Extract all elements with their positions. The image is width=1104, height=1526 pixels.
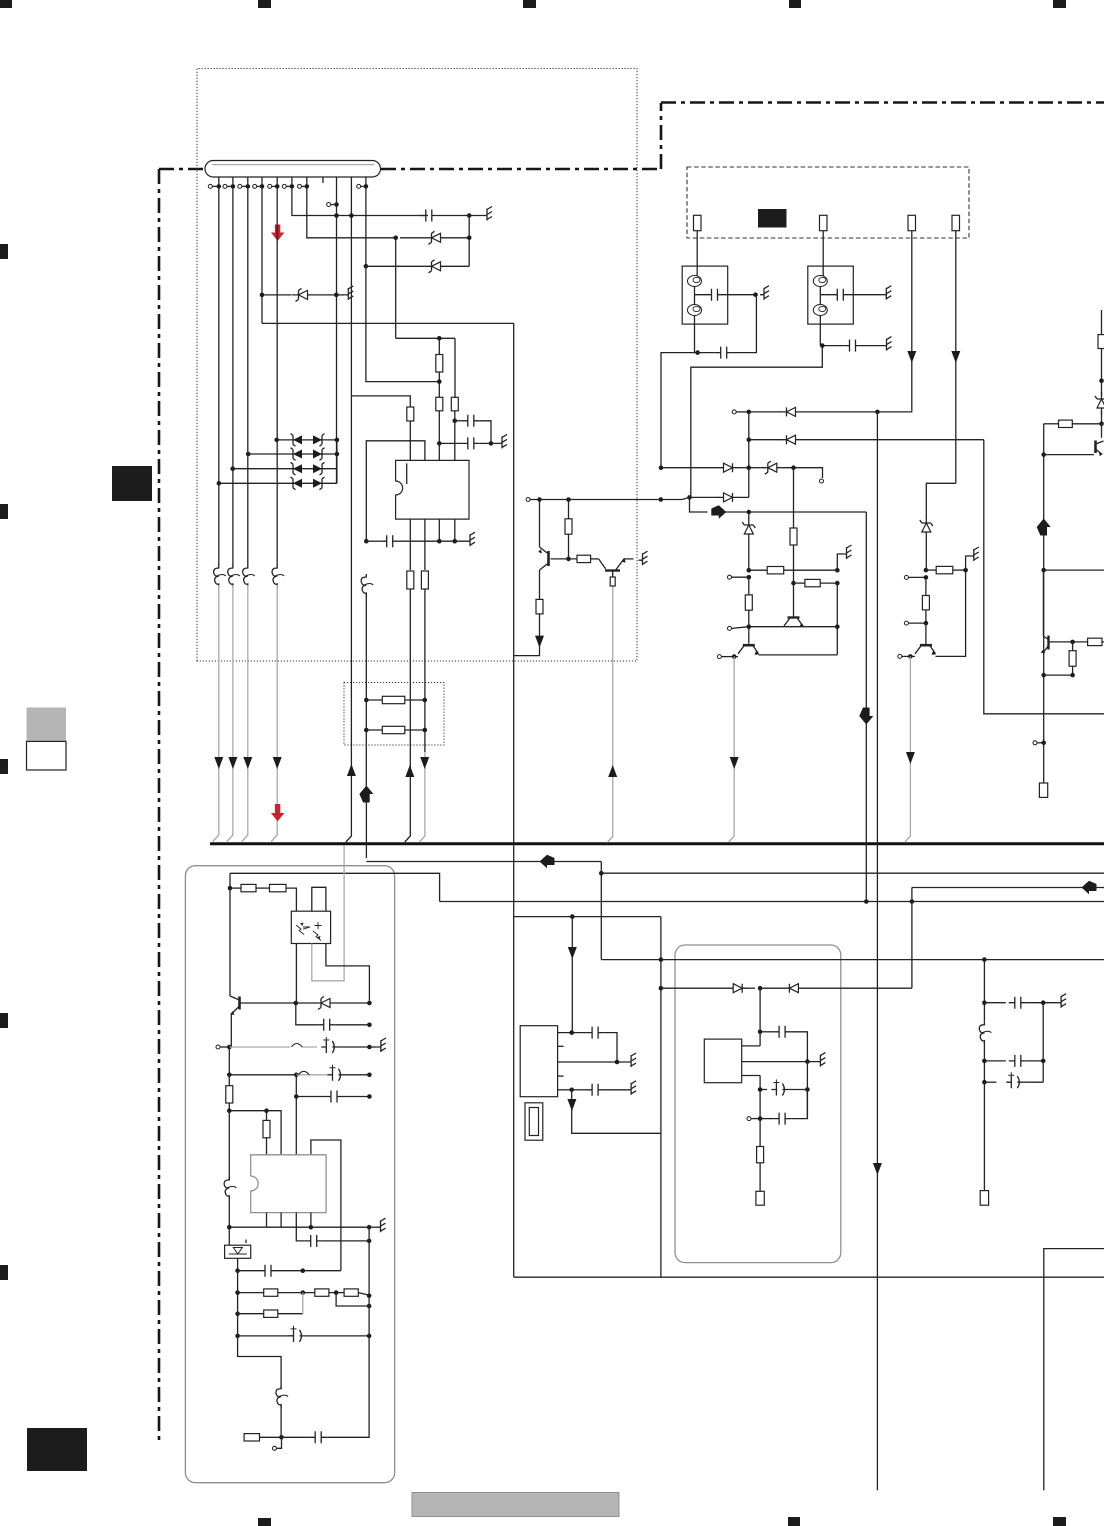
coil bead L4 [243, 186, 255, 587]
IC2 bottom pins [267, 1213, 311, 1228]
PSU gnd rail y1227 [227, 1218, 386, 1232]
capacitor C1 [420, 210, 438, 222]
gray down arrow wire R5 to bus [419, 752, 429, 842]
registration mark top 4 [1053, 0, 1066, 8]
transistor Q2 [599, 558, 634, 586]
pin pair 4 [253, 184, 257, 188]
wire rail y570 right [1044, 569, 1104, 571]
IC2 cap row y1240 [296, 1213, 371, 1247]
resistor R4 (vert) [407, 571, 414, 589]
node x984 y959 [982, 957, 987, 962]
diode row1 y412 [732, 407, 912, 416]
dotted block boundary (tuner unit) [197, 69, 637, 662]
wire SP2 route to diode row4 [691, 346, 823, 498]
wire x1043 from R13 [1043, 424, 1045, 675]
wire jog to coil L8 [238, 1336, 282, 1389]
zener DZ4 (page edge) [1095, 392, 1104, 415]
right sensor cap row y1002 [982, 994, 1066, 1009]
coil bead L2 [214, 186, 226, 587]
registration mark bottom 2 [788, 1517, 800, 1526]
dash-dot boundary left vertical [158, 169, 161, 1445]
ground G1 [483, 207, 492, 221]
cell A rail y627 [728, 624, 840, 630]
pin pair 7 [298, 184, 302, 188]
resistor R18 (vert) [263, 1111, 270, 1155]
node zener rail left [393, 236, 398, 241]
gray wire cell A to bus [729, 657, 739, 842]
coil L7 [224, 1111, 236, 1228]
rounded block middle (remote unit) [675, 945, 841, 1263]
wire pin3 down with arrow [907, 231, 916, 411]
PSU rail y1003 [242, 997, 372, 1010]
wire x760 drop [759, 988, 761, 1032]
block arrow down x866 [859, 708, 873, 725]
resistor R16 (vert) [757, 1119, 764, 1192]
gray wire emitter x612 to bus [607, 586, 617, 843]
up arrow wire x351 to bus [346, 396, 356, 842]
wire x1043 to pin [1043, 675, 1045, 783]
cell B emitter rail y656 [898, 572, 966, 659]
node x572 y916 [570, 914, 575, 919]
wire pin2 to SP2 [822, 231, 824, 276]
node x1101 y423 [1099, 422, 1104, 427]
wire y395 rail [351, 396, 410, 407]
connector CN1 pin ticks [219, 177, 366, 214]
terminal pin rect right sensor [980, 1191, 988, 1206]
wire pill stub x336 down matrix rail [336, 205, 338, 484]
speaker SP2 box [808, 266, 883, 324]
wire x983 row2 drop [984, 440, 1104, 714]
capacitor C4 [698, 297, 757, 359]
wire SP1 out [694, 316, 696, 353]
resistor R6 (vert) [790, 468, 797, 583]
registration mark left 3 [0, 759, 8, 774]
PSU rail y1074 [227, 1065, 372, 1081]
pin pair 3 [238, 184, 242, 188]
wire L1 down to dotted box [365, 594, 367, 730]
transistor Q4 [738, 627, 759, 655]
PSU emitter wire [230, 1014, 232, 1047]
PSU cap row y1096 [294, 1091, 372, 1103]
node y381/x439 [437, 379, 442, 384]
wire pin8 jog to x439 [366, 266, 439, 381]
pin pair 2 [223, 184, 227, 188]
cell A mid rail y570 [747, 567, 840, 574]
resistor R13 (horiz) [1044, 420, 1102, 427]
IC1 bottom pins [410, 519, 455, 570]
wire y861 rail [366, 861, 601, 863]
transistor Q7 [1041, 570, 1053, 653]
dashed block boundary (speaker connector) [687, 167, 969, 238]
cell A emitter rail y656 [717, 627, 837, 659]
zener DZ3 vertical [920, 516, 933, 570]
audio IC box [520, 1026, 557, 1097]
cell B input circle y623 [904, 621, 928, 626]
resistor R10 (vert) [536, 599, 543, 636]
cell B rail y570 [924, 566, 968, 573]
right sensor ecap row y1082 [982, 1072, 1043, 1088]
matrix zener left row3 [291, 462, 303, 475]
wire cap-row inverted U to IC1 [366, 441, 425, 541]
remote cap row y1031 [758, 1026, 808, 1062]
wire R4/R5 down [410, 589, 425, 758]
coil bead L3 [228, 186, 240, 587]
wire x601 drop [600, 862, 602, 960]
rail y675 [1041, 673, 1075, 678]
optocoupler box [291, 911, 330, 943]
matrix diode right row4 [313, 477, 325, 490]
registration mark bottom 1 [258, 1518, 271, 1526]
speaker connector pin 1 [694, 215, 702, 230]
node matrix r1 [335, 438, 340, 443]
wire x748 vert rows [748, 412, 750, 498]
matrix right rail [336, 440, 338, 483]
ground cell A [837, 545, 851, 570]
resistor R3 (vert) [451, 397, 458, 411]
wire x229 y1047-1074 [228, 1047, 230, 1075]
matrix diode right row3 [313, 462, 325, 475]
node R3 y420 [453, 419, 458, 424]
node x1043 y570 [1041, 568, 1046, 573]
wire zener D1 rail [400, 237, 469, 239]
wire x296 vertical [295, 1075, 297, 1155]
stub open circle [273, 1437, 282, 1450]
node SP1 cap [753, 292, 758, 297]
pin pair 1 [208, 184, 212, 188]
audio IC pin stub 4 [558, 1075, 564, 1077]
wire cap to ground [438, 215, 483, 217]
node SP2 out [820, 343, 825, 348]
PSU input rail y1047 [216, 1037, 386, 1053]
wire SP1 line to x661 [661, 353, 698, 468]
PSU ecap row y1335 [235, 1326, 371, 1342]
wire audio out with arrow [567, 1090, 661, 1134]
wire y887 rail with arrow [912, 881, 1104, 895]
zener DZ2 vertical [742, 512, 755, 570]
black label block upper left [112, 466, 152, 501]
arrow down x877 [873, 1163, 882, 1175]
resistor R8 (vert) [565, 500, 572, 559]
terminal pin rect remote [756, 1191, 764, 1205]
direction arrow left y861 [540, 855, 555, 869]
audio IC pin row 3 [558, 1053, 637, 1067]
node zener rail right [467, 236, 472, 241]
resistor R12 (vert, page edge) [1098, 335, 1104, 349]
black label block in speaker connector [758, 209, 787, 228]
right column vertical x1101 [1101, 310, 1103, 424]
zener diode D1 [425, 231, 447, 244]
wire x837 down [836, 583, 838, 627]
resistor R2a (vert) [436, 338, 443, 397]
diode matrix row 4 [217, 481, 337, 486]
matrix diode right row1 [313, 434, 325, 447]
registration mark top 1 [258, 0, 271, 8]
IC2 body [251, 1155, 326, 1213]
capacitor C2 [455, 415, 491, 444]
bottom-right unit box [1044, 1249, 1104, 1491]
wire IC2 pin4 top loop [311, 1140, 341, 1271]
rounded block left (power supply unit) [185, 866, 394, 1483]
transistor Q3 [784, 583, 804, 627]
transistor Q6 (page edge) [1096, 424, 1104, 456]
diode matrix row 1 [274, 438, 336, 443]
registration mark top 3 [789, 0, 801, 8]
registration mark top 2 [523, 0, 536, 8]
wire pin6 to cap rail [292, 186, 428, 215]
black label block lower left [27, 1428, 87, 1471]
block arrow up x1043 [1037, 519, 1051, 536]
zener cell B feed [926, 483, 956, 517]
node x911 y902 [910, 899, 915, 904]
diode row2 y440 [747, 435, 984, 444]
wire opto pin to y965 [326, 944, 370, 1001]
PSU rail y1110 [227, 1108, 281, 1154]
wire R1 to IC1 [409, 421, 411, 460]
wire x877 long vertical [876, 412, 878, 1490]
cell A input circle y577 [728, 575, 752, 580]
up arrow wire R4 to bus [405, 758, 415, 842]
gray wire battery 4 to bus [271, 585, 282, 842]
node x568 y559 [566, 557, 571, 562]
zener diode D2 [425, 260, 447, 273]
plug resistor R19 [244, 1434, 284, 1441]
resistor R15 (vert) [1069, 642, 1076, 675]
node x1043 y454 [1041, 452, 1046, 457]
wire vertical 469 [468, 216, 470, 238]
wire y512 rail to x866 [726, 511, 867, 513]
capacitor C5 [822, 337, 891, 352]
wire x369 vertical PSU [368, 1227, 370, 1437]
matrix zener left row4 [291, 477, 303, 490]
coil L1 [361, 574, 373, 596]
wire y512 corner down x866 [865, 512, 867, 902]
audio frame right x660 [660, 917, 662, 1278]
wire emitter to x513 [514, 644, 540, 656]
dash-dot boundary step vertical [660, 103, 663, 169]
wire y873 rail right [601, 872, 1104, 874]
audio frame left x513 [513, 917, 515, 1278]
ground SP1 [760, 286, 769, 300]
thick arrow up on supply wire [359, 730, 373, 858]
wire pin8 down [365, 186, 367, 266]
node R2 y443 [437, 441, 442, 446]
wire pin4 branch to y323 rail [261, 186, 263, 323]
capacitor C3 [439, 434, 507, 449]
PSU cap row y1024 [296, 1003, 372, 1031]
node x660 y959 [659, 957, 664, 962]
gray wire battery 2 to bus [227, 585, 238, 842]
wire R2/R3 into IC1 [439, 421, 455, 461]
node x1101 y380 [1099, 379, 1104, 384]
diode matrix row 2 [246, 452, 337, 457]
node x336 cap rail [334, 213, 339, 218]
wire x572 drop with arrow [568, 917, 577, 1033]
wire x911 drop to remote row [911, 888, 913, 989]
resistor R2 (vert) [436, 397, 443, 411]
node x351 cap rail [349, 213, 354, 218]
opto top jumper loop [312, 887, 326, 911]
gray title bar bottom [412, 1493, 619, 1517]
decoupling cap row under IC1 [364, 532, 475, 547]
resistor R17 (vert) [226, 1075, 233, 1111]
coil L6 [979, 960, 991, 1192]
PSU resistor row y1313 [235, 1293, 302, 1318]
cell A rail y583 [791, 579, 839, 586]
wire arrow feed y512 [690, 497, 708, 512]
resistor R14 (horiz) [1053, 638, 1104, 645]
jumper resistor RJ1 [364, 696, 427, 703]
dash-dot boundary top-left horizontal [159, 168, 205, 171]
matrix zener left row2 [291, 448, 303, 461]
node y338/x439 [437, 336, 442, 341]
PSU cap row y1270 [235, 1265, 341, 1277]
node x866 y902 [864, 899, 869, 904]
speaker connector pin 4 [952, 215, 960, 230]
jumper resistor RJ2 [364, 726, 427, 733]
wire y959 rail [601, 959, 1104, 961]
zener diode D3 row [260, 286, 354, 302]
pin pair 5 [268, 184, 272, 188]
node matrix r2 [335, 452, 340, 457]
gray wire battery 1 to bus [213, 585, 224, 842]
diode row4 y497 [682, 493, 749, 502]
diode row3 y468 [659, 461, 824, 483]
resistor R11 (vert) [922, 577, 929, 623]
wire zener D2 rail [366, 240, 469, 266]
wire pin4 rail to x514 [262, 322, 514, 324]
gray wire battery 3 to bus [242, 585, 253, 842]
pin pair 8 [357, 184, 361, 188]
wire x395 vertical [395, 238, 397, 338]
PSU resistor row y1292 [235, 1289, 371, 1298]
dash-dot boundary horizontal right of connector [381, 168, 661, 171]
wire pin1 to SP1 [696, 231, 698, 276]
pin pair 6 [282, 184, 286, 188]
wire x455 down to resistor [454, 338, 456, 397]
wire y873 rail left [230, 873, 440, 901]
resistor R1 (vert) [407, 407, 414, 421]
remote cap row y1118 [747, 1091, 807, 1125]
wire pin4 down with arrow [951, 231, 960, 484]
gray wire bus to opto [312, 845, 344, 981]
red service arrow 2 [271, 804, 284, 822]
wire opto left pin down [295, 944, 297, 1004]
gray wire cell B to bus [905, 656, 915, 842]
transistor pair rail y499 [526, 497, 682, 502]
arrow down emitter [535, 636, 544, 648]
wire x237 vertical [237, 1271, 239, 1336]
matrix diode right row2 [313, 448, 325, 461]
wire base feed x229 [229, 888, 231, 996]
node pin8 branch [364, 264, 369, 269]
wire pin7 to zener rail [307, 186, 396, 237]
PSU bottom cap row y1437 [282, 1431, 370, 1443]
main bus line [210, 842, 1104, 845]
node x601 y873 [599, 871, 604, 876]
PSU resistor chain rail [228, 873, 297, 911]
cell B input circle y577 [904, 575, 928, 580]
registration mark left 1 [0, 244, 8, 259]
wire y902 rail [440, 901, 1104, 903]
long wire x513 [513, 323, 515, 916]
ground cell B [966, 547, 979, 570]
audio IC pin row 5 [558, 1081, 637, 1096]
pin pair 9 (stub) [327, 203, 331, 207]
remote diode row y988 [659, 984, 912, 993]
wire R3 down [454, 411, 456, 421]
wire pill stub x351 down [350, 216, 352, 396]
terminal pin rect x1043 [1039, 783, 1047, 797]
registration mark bottom 3 [1053, 1517, 1066, 1526]
transistor Q8 [230, 996, 242, 1015]
connector CN1 body (pill) [205, 161, 381, 178]
speaker connector pin 2 [820, 215, 828, 230]
legend swatch box [27, 708, 67, 771]
resistor R5 (vert) [421, 571, 428, 589]
matrix zener left row1 [291, 434, 303, 447]
red service arrow 1 [271, 225, 284, 242]
audio IC pin stub 2 [558, 1045, 564, 1047]
remote box pin 3 [742, 1076, 760, 1119]
bottom long rail y1277 [514, 1276, 1104, 1278]
coil L8 [276, 1386, 288, 1438]
speaker connector pin 3 [908, 215, 916, 230]
wire audio frame top y916 [514, 916, 661, 918]
IC1 body [396, 460, 469, 519]
resistor R7 (vert) [745, 577, 752, 627]
dash-dot boundary top horizontal [661, 101, 1104, 104]
wire SP2 out [819, 316, 821, 346]
audio IC pin row 1 [558, 1027, 617, 1060]
registration mark left 5 [0, 1265, 8, 1280]
connector (double rect) [525, 1103, 543, 1140]
ground SP2 [882, 286, 891, 300]
coil bead L5 [272, 186, 284, 587]
remote box pin 2 [742, 1053, 826, 1067]
registration mark top-left corner [0, 0, 12, 8]
node SP1 out [695, 350, 700, 355]
block arrow right y512 [711, 505, 726, 519]
speaker SP1 box [682, 266, 755, 324]
registration mark left 4 [0, 1013, 8, 1028]
link x336 to x369 [336, 1293, 371, 1309]
transistor Q1 [538, 500, 548, 600]
remote sensor box [704, 1039, 741, 1083]
diode matrix row 3 [230, 466, 337, 471]
remote box pin 1 [742, 1032, 760, 1046]
wire R2 down [438, 411, 440, 444]
wire rail y338 [396, 337, 455, 339]
right sensor cap row y1060 [982, 1003, 1045, 1082]
open circle stub x1035 [1033, 741, 1046, 746]
node at C1 rail [467, 213, 472, 218]
resistor R9 (horiz) [551, 555, 599, 562]
wire base row y454 [1044, 454, 1094, 456]
ground Q2 [639, 551, 648, 565]
remote ecap row y1089 [758, 1062, 810, 1119]
node y512/x748 [747, 510, 752, 515]
transistor Q5 [915, 623, 936, 655]
registration mark left 2 [0, 504, 8, 519]
LED box D4 [225, 1227, 251, 1271]
dotted box (jumper resistors) [344, 683, 444, 746]
